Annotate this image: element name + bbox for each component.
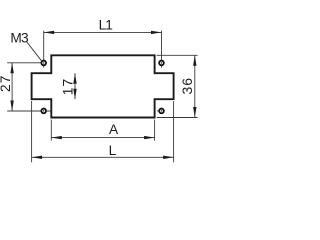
extension line A left: [50, 120, 52, 141]
dimension line A: [51, 137, 154, 139]
hole M3 top-left: [41, 61, 46, 66]
centerline stub bottom-right hole: [157, 110, 159, 112]
extension line 27 bottom (through hole to edge): [7, 110, 50, 112]
leader M3 to top-left hole: [26, 41, 41, 61]
arrow 27 bottom: [10, 101, 13, 112]
arrow L1 right: [151, 31, 162, 34]
extension line 27 top: [7, 62, 41, 64]
hole M3 bottom-right: [159, 109, 164, 114]
dimension line L1: [44, 31, 162, 33]
dimension line 17: [74, 73, 76, 99]
extension line L right: [173, 101, 175, 162]
extension line L1 right (through hole): [161, 31, 163, 68]
svg-text:36: 36: [179, 77, 195, 95]
dimension line 27: [11, 63, 13, 111]
arrow L left: [32, 156, 42, 159]
svg-text:A: A: [109, 122, 119, 137]
arrow A right: [144, 136, 155, 139]
dimension line L: [32, 156, 174, 158]
svg-text:L: L: [109, 143, 117, 158]
extension line A right: [154, 120, 156, 141]
extension line L1 left (through hole): [43, 31, 45, 68]
extension line L left: [31, 101, 33, 162]
arrow L right: [163, 156, 174, 159]
svg-text:L1: L1: [99, 17, 113, 32]
svg-text:27: 27: [0, 75, 13, 93]
hole M3 bottom-left: [41, 109, 46, 114]
arrow A left: [51, 136, 62, 139]
panel cutout outline (cross shape): [32, 55, 174, 117]
arrow L1 left: [44, 31, 55, 34]
extension line 36 bottom: [157, 117, 198, 119]
dimension line 36: [194, 55, 196, 117]
arrow 36 bottom: [193, 107, 196, 118]
arrow 27 top: [10, 63, 13, 74]
svg-text:17: 17: [60, 78, 76, 96]
arrow 17 bottom: [73, 89, 76, 100]
hole M3 top-right: [159, 61, 164, 66]
arrow 17 top: [73, 73, 76, 84]
svg-text:M3: M3: [10, 30, 29, 45]
arrow 36 top: [193, 55, 196, 66]
extension line 36 top: [157, 54, 198, 56]
